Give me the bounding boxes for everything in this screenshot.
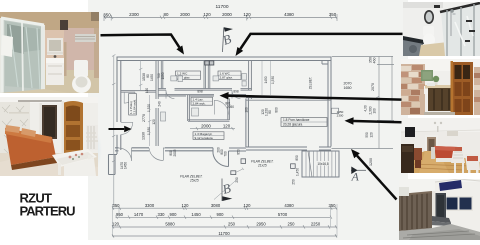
dim bottom row2: [116, 216, 331, 218]
TV: [405, 127, 415, 137]
wall left outer (double line): [117, 57, 121, 155]
paper background of scanned plan: [88, 0, 408, 240]
room label 1.3: [193, 132, 224, 140]
bottom row3 numbers: [112, 222, 321, 227]
FILAR ZELBET label 2: [251, 160, 274, 168]
partition vertical x156: [156, 61, 158, 147]
photo kitchen-right: [401, 59, 480, 115]
wall room1.8 left x247: [246, 99, 249, 148]
dim line interior x262: [262, 61, 271, 95]
white chairs right: [451, 151, 480, 173]
wall room1.8 top y98: [246, 98, 331, 101]
wall bottom room 1.8: [246, 147, 331, 150]
photo bedroom-left: [0, 97, 98, 176]
arrow from bathroom-right to WC2: [240, 34, 402, 49]
arrow from kitchen-right to room 1.4: [229, 96, 402, 100]
floor: [424, 112, 455, 115]
door arc WC2: [232, 90, 240, 98]
wall horizontal y91 top-left room: [121, 91, 156, 93]
corridor wall x188: [188, 95, 190, 121]
patterned wallpaper left: [0, 102, 30, 162]
small wall box near 1.8 entry: [332, 108, 339, 113]
dim line top: [104, 17, 337, 19]
floor: [401, 151, 480, 173]
arrow from outdoor-right to staircase: [357, 156, 397, 200]
entrance recess bottom-middle: [213, 148, 246, 167]
toilet: [0, 89, 70, 93]
doorway: [425, 135, 438, 151]
dim 2000 120 text: [201, 123, 231, 128]
brick right edge: [474, 67, 480, 115]
dim bottom row4: [112, 234, 337, 237]
photo edge shadow smudge: [86, 130, 102, 170]
WC fixtures: [171, 74, 247, 87]
door arc exterior left2: [149, 148, 165, 161]
door arc in y91 wall: [124, 92, 135, 103]
section marker A right: [351, 167, 367, 184]
section marker B top: [221, 27, 234, 52]
steps: [430, 216, 451, 223]
shower glass right: [441, 2, 480, 56]
arrow from bedroom-left to room 1.1: [109, 128, 125, 130]
door arc left wall: [121, 122, 133, 134]
wall bottom-left segment with door openings: [115, 148, 213, 151]
windows: [445, 196, 473, 211]
white table set: [52, 149, 97, 167]
door arc WC1: [166, 90, 174, 98]
radiator: [86, 125, 98, 150]
picture green: [421, 70, 433, 81]
dim bottom row1: [112, 207, 337, 209]
floor: [419, 42, 455, 56]
door arc exterior left1: [119, 148, 132, 161]
bottom row2 numbers: [116, 212, 288, 217]
pillar C near B-marker: [231, 171, 236, 175]
room label 1.4: [191, 97, 213, 105]
room label 1.2 WC: [176, 71, 201, 80]
corridor wall y95: [158, 95, 246, 96]
wall WC bottom y89: [158, 89, 252, 91]
FILAR ZELBET label 1: [180, 175, 203, 183]
building right: [435, 182, 480, 234]
wall WC1 left: [161, 61, 163, 90]
stairs diagonal: [308, 151, 312, 177]
arrow from bathroom-left to WC1: [101, 35, 180, 48]
dim bottom row3: [112, 226, 337, 228]
accessories: [434, 5, 475, 42]
right side texts: [309, 57, 377, 166]
photo bathroom-left: [0, 12, 99, 93]
shelf: [9, 112, 29, 114]
wall top-right notch: [322, 61, 331, 65]
small fixtures corridor/bath: [161, 108, 199, 121]
photo bathroom-right: [403, 2, 480, 56]
chimney blocks on top wall: [205, 61, 209, 65]
dim lines right side: [332, 56, 395, 149]
left chain numbers (rotated): [120, 73, 146, 169]
wall WC1/WC2 divider: [204, 61, 210, 90]
svg-text:PARTERU: PARTERU: [20, 203, 76, 218]
dark wardrobe/doorway: [42, 105, 57, 139]
arrow from livingroom-right to room 1.8: [354, 121, 402, 122]
counter + cabinets: [424, 86, 436, 94]
photo livingroom-right: [401, 118, 480, 173]
paving ground: [399, 224, 480, 240]
floor: [0, 153, 98, 176]
white chair back right: [86, 133, 98, 141]
brick wall left: [401, 64, 425, 115]
wall WC2 right: [249, 61, 252, 100]
wall right outer: [328, 57, 331, 147]
wooden door right: [63, 101, 83, 153]
room label 1.6 WC: [218, 71, 241, 80]
section marker B bottom: [214, 179, 238, 202]
pillar B: [291, 164, 296, 169]
photo outdoor-right: [399, 179, 480, 240]
corridor wall x228: [228, 99, 230, 121]
door arc corridor: [214, 100, 228, 114]
dark furniture left: [401, 144, 414, 173]
interior chain numbers (rotated): [145, 72, 299, 184]
fence left: [399, 192, 432, 231]
bottom row1 numbers: [113, 203, 337, 208]
mirror: [424, 10, 434, 24]
wall top outer (double line): [117, 57, 332, 61]
room label 1.1 (rotated box): [129, 94, 137, 116]
mirror cabinet: [47, 38, 63, 55]
toilet: [423, 26, 434, 36]
wall annex stub bottom-left: [109, 154, 118, 175]
washing machine: [403, 38, 423, 56]
dim risers bottom: [112, 204, 337, 237]
navy awning sign: [439, 180, 462, 191]
dim 2000-120 line: [190, 127, 235, 130]
top dim numbers: [103, 4, 336, 18]
pillar A: [241, 159, 246, 164]
dim chain left outer: [112, 55, 115, 206]
vanity: [46, 58, 64, 85]
bed: [5, 128, 56, 165]
2070 1650 interior: [337, 82, 352, 118]
dim chain interior x150: [139, 61, 151, 147]
room label 1.8: [281, 118, 327, 127]
stairs label: [315, 161, 331, 165]
plant: [433, 76, 439, 82]
corridor wall y120: [188, 120, 230, 122]
stairs outline: [302, 151, 339, 177]
stairs treads: [306, 151, 336, 177]
shower cabin: [1, 18, 44, 93]
towel: [1, 35, 13, 57]
beds terracotta: [434, 146, 461, 158]
picture right: [447, 131, 458, 136]
door + porch: [435, 193, 446, 219]
wooden door: [452, 62, 473, 115]
